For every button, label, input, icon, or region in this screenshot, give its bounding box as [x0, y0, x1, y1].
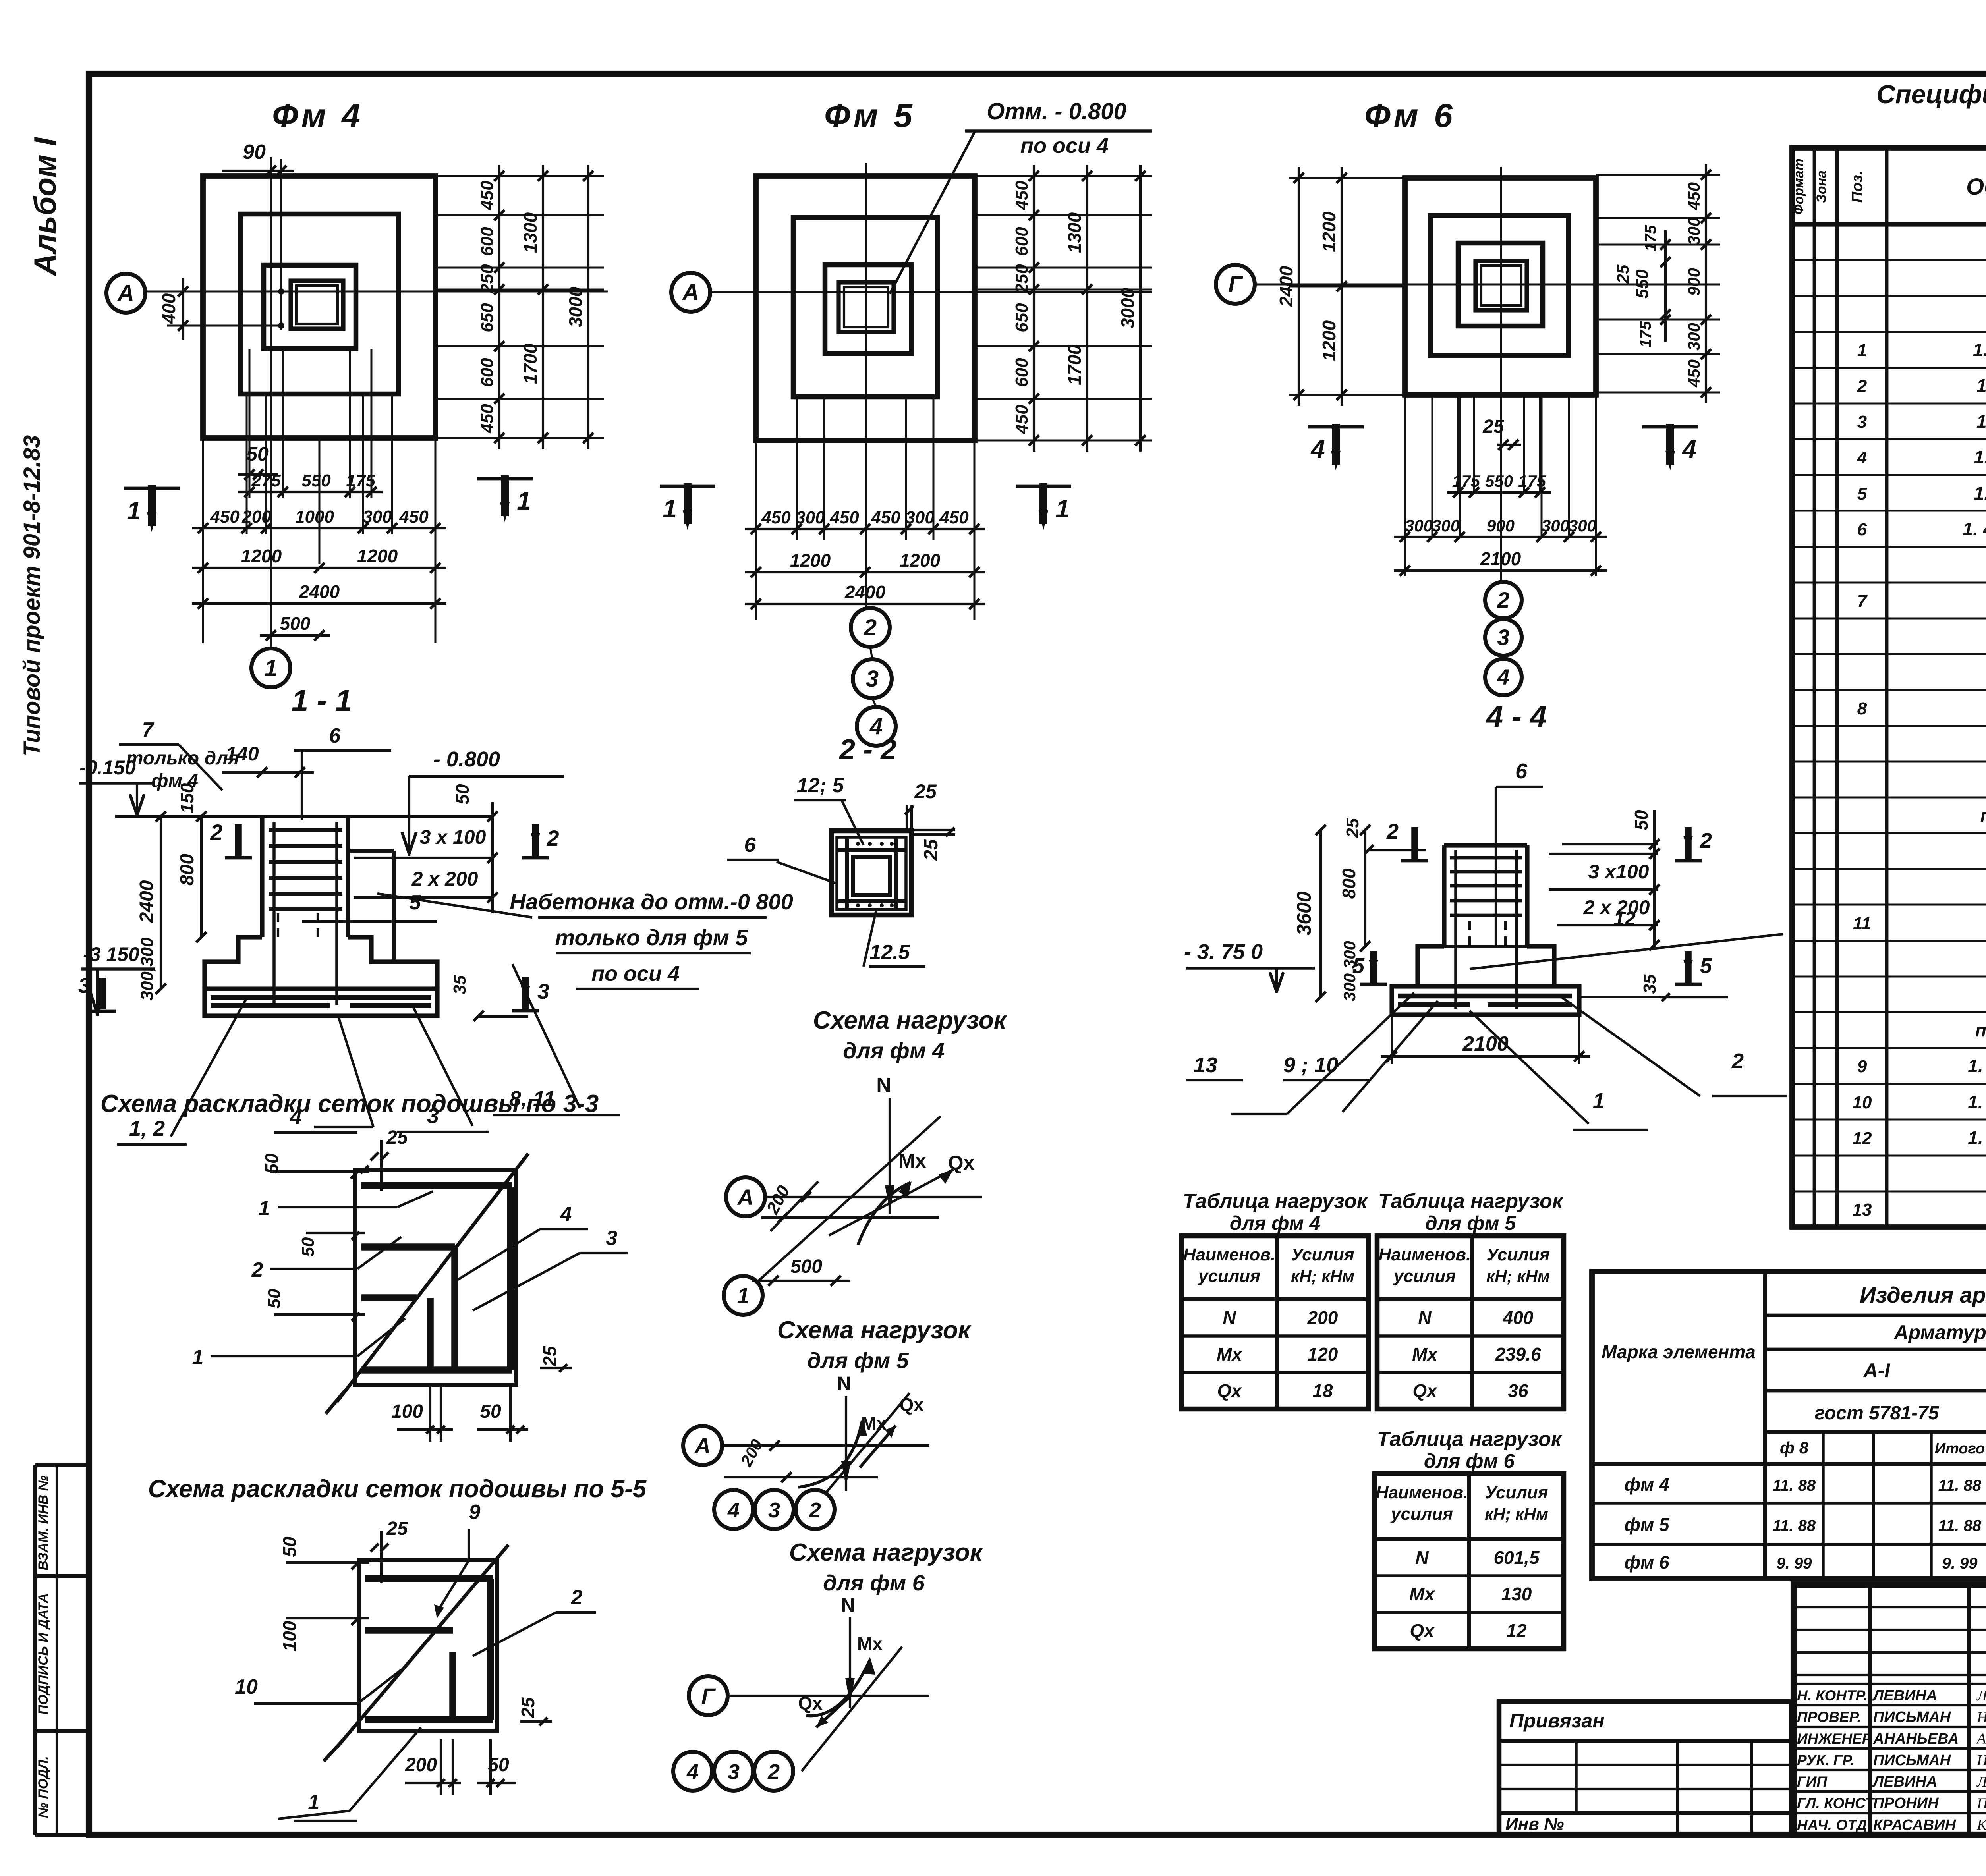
svg-text:N: N — [1418, 1307, 1432, 1328]
title block signature rows — [1794, 1683, 1986, 1685]
svg-text:175: 175 — [1518, 472, 1546, 490]
mesh vertical bar mid 3-3 — [427, 1298, 434, 1370]
section mark 3 right section 1-1 — [522, 977, 529, 1009]
svg-text:12.5: 12.5 — [869, 941, 910, 964]
svg-text:450: 450 — [871, 508, 900, 527]
svg-text:Схема раскладки сеток подошв: Схема раскладки сеток подошвы по 5-5 — [148, 1475, 647, 1503]
dim row 1200-1200 plan Фм5 — [745, 571, 985, 573]
axis A circle for plan Фм4 — [106, 274, 145, 313]
svg-text:50: 50 — [265, 1289, 284, 1308]
svg-text:550: 550 — [301, 471, 331, 490]
svg-text:по оси 4: по оси 4 — [591, 962, 680, 986]
svg-text:N: N — [841, 1595, 855, 1616]
svg-text:Арматура класса: Арматура класса — [1893, 1321, 1986, 1343]
mesh bar 3 horizontal 3-3 — [361, 1294, 417, 1301]
section 1-1 step profile left — [205, 937, 262, 989]
svg-text:-3 150: -3 150 — [83, 943, 139, 965]
section mark 1 right plan Фм5 — [1016, 485, 1071, 488]
svg-text:2400: 2400 — [844, 582, 886, 602]
svg-text:50: 50 — [480, 1401, 501, 1422]
svg-text:11. 88: 11. 88 — [1938, 1477, 1982, 1494]
svg-text:1300: 1300 — [520, 212, 541, 253]
svg-text:- 0.800: - 0.800 — [433, 747, 500, 771]
svg-text:4: 4 — [686, 1760, 699, 1784]
specification table column lines — [1813, 148, 1816, 1227]
svg-text:Усилия: Усилия — [1486, 1245, 1549, 1264]
svg-text:900: 900 — [1487, 516, 1515, 535]
svg-text:7: 7 — [142, 718, 155, 741]
svg-text:4: 4 — [1681, 435, 1696, 463]
svg-text:А: А — [117, 280, 134, 306]
specification table outer box — [1792, 148, 1986, 1227]
svg-text:300: 300 — [1405, 516, 1433, 535]
leader 4 right 3-3 — [453, 1229, 540, 1283]
svg-text:РУК. ГР.: РУК. ГР. — [1797, 1752, 1855, 1768]
leader 1 top 3-3 — [278, 1206, 397, 1208]
svg-text:300: 300 — [1685, 217, 1703, 245]
section 2-2 column core — [853, 857, 890, 895]
svg-text:450: 450 — [829, 508, 859, 527]
svg-text:1: 1 — [737, 1283, 749, 1308]
slab mesh lines section 4-4 — [1398, 994, 1572, 999]
leader 3 right 3-3 — [473, 1253, 580, 1310]
svg-text:ПИСЬМАН: ПИСЬМАН — [1873, 1752, 1951, 1769]
svg-text:2: 2 — [1386, 820, 1399, 843]
svg-text:450: 450 — [761, 508, 791, 527]
right dim 450-600-250-650-600-450 plan Фм4 — [498, 165, 500, 449]
dim row 450-200-1000-300-450 plan Фм4 — [192, 527, 446, 529]
svg-text:1200: 1200 — [790, 550, 831, 571]
svg-text:9. 99: 9. 99 — [1777, 1555, 1812, 1572]
load table для фм 5 grid — [1377, 1236, 1564, 1409]
svg-text:12: 12 — [1613, 907, 1636, 930]
svg-text:2: 2 — [546, 826, 559, 851]
svg-text:2: 2 — [571, 1586, 583, 1609]
mesh layout 5-5 outline — [359, 1560, 497, 1731]
load table для фм 6 grid — [1375, 1474, 1564, 1649]
svg-text:Таблица нагрузок: Таблица нагрузок — [1378, 1190, 1564, 1213]
svg-text:1300: 1300 — [1064, 212, 1085, 253]
svg-text:400: 400 — [1503, 1307, 1534, 1328]
mesh layout 3-3 outline — [355, 1170, 516, 1385]
section 2-2 horizontal rebar — [837, 848, 906, 852]
svg-text:Наименов.: Наименов. — [1183, 1245, 1275, 1264]
section mark 4 left plan Фм6 — [1308, 425, 1364, 429]
axis Г circle plan Фм6 — [1216, 265, 1255, 304]
svg-text:А-I: А-I — [1863, 1359, 1891, 1382]
svg-text:3 x 100: 3 x 100 — [420, 826, 486, 848]
left margin strip boxes — [33, 1465, 37, 1835]
svg-text:1. 410 - 2, Вып. 1: 1. 410 - 2, Вып. 1 — [1968, 1127, 1986, 1148]
svg-text:600: 600 — [1012, 227, 1032, 256]
leader 1 bottom 5-5 — [350, 1727, 421, 1811]
svg-text:2: 2 — [809, 1498, 821, 1522]
svg-text:9 ; 10: 9 ; 10 — [1283, 1053, 1338, 1077]
svg-text:25: 25 — [539, 1345, 560, 1367]
svg-text:1000: 1000 — [295, 507, 334, 527]
section 2-2 stirrup frame — [837, 837, 906, 909]
svg-text:А: А — [682, 280, 699, 305]
svg-text:1200: 1200 — [1319, 211, 1339, 252]
svg-text:500: 500 — [280, 613, 311, 634]
leader 10 5-5 — [254, 1702, 357, 1705]
svg-text:3: 3 — [1497, 625, 1509, 650]
svg-text:позиции 1, 2, 6: позиции 1, 2, 6 — [1975, 1020, 1986, 1040]
svg-text:Усилия: Усилия — [1291, 1245, 1354, 1264]
svg-text:7: 7 — [1857, 591, 1868, 611]
svg-text:4: 4 — [727, 1498, 740, 1522]
svg-text:Поз.: Поз. — [1849, 171, 1866, 203]
section 1-1 bottom leaders and labels — [171, 999, 246, 1137]
svg-text:Схема нагрузок: Схема нагрузок — [813, 1007, 1007, 1034]
right dim 1300-1700 plan Фм5 — [1086, 165, 1088, 452]
mesh bar 1 horizontal 3-3 — [361, 1182, 512, 1189]
section 4-4 bottom labels — [1287, 993, 1414, 1114]
svg-text:Привязан: Привязан — [1509, 1710, 1605, 1732]
diagonal 5-5 — [337, 1545, 508, 1747]
svg-text:450: 450 — [1685, 359, 1703, 388]
section mark 4 right plan Фм6 — [1642, 425, 1698, 429]
dim 3x100 section 1-1 — [354, 857, 493, 859]
section 2-2 vertical rebar — [845, 837, 849, 909]
reinforcement table data row lines — [1592, 1462, 1986, 1466]
svg-text:3: 3 — [78, 974, 90, 998]
svg-text:усилия: усилия — [1393, 1266, 1456, 1286]
svg-text:450: 450 — [939, 508, 969, 527]
svg-text:1. 410 - 2, Вып. 1: 1. 410 - 2, Вып. 1 — [1968, 1092, 1986, 1112]
svg-text:Фм 4: Фм 4 — [272, 97, 363, 134]
svg-text:2 - 2: 2 - 2 — [838, 734, 896, 766]
svg-text:300: 300 — [796, 508, 825, 527]
svg-text:500: 500 — [790, 1256, 822, 1277]
svg-text:550: 550 — [1485, 472, 1513, 490]
section mark 2 right section 1-1 — [532, 824, 539, 856]
svg-text:1200: 1200 — [900, 550, 941, 571]
svg-text:2: 2 — [1497, 587, 1509, 612]
load scheme фм5 Mx arc — [798, 1422, 862, 1487]
load scheme фм6 Qx arrow — [816, 1697, 850, 1727]
svg-text:Левина: Левина — [1976, 1687, 1986, 1704]
svg-text:1 - 1: 1 - 1 — [292, 684, 352, 718]
svg-text:1700: 1700 — [520, 343, 541, 384]
svg-text:фм 4: фм 4 — [1624, 1474, 1669, 1495]
svg-text:2100: 2100 — [1480, 548, 1521, 569]
svg-text:Схема раскладки сеток подош: Схема раскладки сеток подошвы по 3-3 — [100, 1090, 599, 1117]
svg-text:300: 300 — [1569, 516, 1596, 535]
dim row 275-550-175 plan Фм4 — [238, 491, 383, 493]
svg-text:Инв №: Инв № — [1505, 1814, 1564, 1834]
svg-text:усилия: усилия — [1390, 1504, 1453, 1524]
leader to Набетонка text — [377, 894, 532, 917]
svg-text:4: 4 — [1857, 448, 1867, 467]
label 2 leader section 4-4 — [1561, 997, 1700, 1096]
svg-text:Отм. - 0.800: Отм. - 0.800 — [987, 98, 1126, 124]
svg-text:4: 4 — [1310, 435, 1325, 463]
svg-text:1. 410-2 вып. 1: 1. 410-2 вып. 1 — [1976, 375, 1986, 396]
load scheme фм5 diagonal — [827, 1393, 910, 1492]
svg-text:фм 5: фм 5 — [1624, 1514, 1670, 1535]
svg-text:Марка элемента: Марка элемента — [1602, 1341, 1756, 1362]
svg-text:1200: 1200 — [1319, 320, 1339, 361]
svg-text:N: N — [1415, 1547, 1429, 1568]
plan Фм6 upper step outline — [1458, 243, 1543, 326]
right small dim 175-550-175 plan Фм6 — [1664, 230, 1667, 342]
axis 4 vertical line plan Фм5 — [865, 163, 867, 608]
svg-text:25: 25 — [386, 1127, 408, 1148]
right dim 450-300-900-300-450 plan Фм6 — [1705, 164, 1707, 403]
svg-text:только для фм 5: только для фм 5 — [555, 925, 748, 950]
svg-text:N: N — [837, 1373, 851, 1394]
set-on concrete block right section 1-1 — [348, 849, 394, 853]
load scheme фм5 axis A circle — [683, 1426, 722, 1465]
load scheme фм6 diagonal — [802, 1647, 902, 1771]
svg-text:3: 3 — [768, 1498, 780, 1522]
section 4-4 column rebar — [1450, 856, 1522, 860]
svg-text:1. 412-1/77 Вып. 3: 1. 412-1/77 Вып. 3 — [1963, 519, 1986, 539]
leader 9 5-5 — [437, 1561, 469, 1612]
svg-text:2: 2 — [864, 615, 877, 641]
svg-text:275: 275 — [251, 471, 281, 490]
svg-text:2: 2 — [1857, 376, 1867, 396]
base slab mesh lines — [211, 995, 431, 1000]
svg-text:2: 2 — [1700, 829, 1712, 853]
dim 400 plan Фм4 — [182, 278, 184, 340]
svg-text:3: 3 — [606, 1227, 618, 1250]
svg-text:Нис: Нис — [1976, 1752, 1986, 1769]
svg-text:Qx: Qx — [1412, 1380, 1438, 1401]
svg-text:А: А — [737, 1185, 753, 1210]
mesh bar top 5-5 — [365, 1575, 493, 1582]
svg-text:для фм 5: для фм 5 — [807, 1348, 909, 1373]
svg-text:175: 175 — [1452, 472, 1480, 490]
svg-text:2400: 2400 — [1276, 266, 1296, 307]
svg-text:5: 5 — [1352, 954, 1365, 978]
svg-text:Схема нагрузок: Схема нагрузок — [777, 1316, 972, 1344]
svg-text:Mx: Mx — [1412, 1344, 1438, 1365]
title block upper empty rows left part — [1794, 1606, 1986, 1608]
svg-text:3: 3 — [728, 1760, 740, 1784]
load scheme фм4 dim 200 diagonal — [771, 1181, 818, 1231]
axis Г line plan Фм6 — [1255, 284, 1720, 286]
svg-text:6: 6 — [329, 724, 341, 747]
svg-text:по оси 4: по оси 4 — [1020, 134, 1109, 158]
svg-text:9. 99: 9. 99 — [1942, 1555, 1978, 1572]
svg-text:25: 25 — [518, 1697, 538, 1718]
svg-text:кН; кНм: кН; кНм — [1291, 1267, 1354, 1285]
axis A line plan Фм5 — [710, 291, 1152, 293]
svg-text:Таблица нагрузок: Таблица нагрузок — [1377, 1428, 1563, 1451]
svg-text:кН; кНм: кН; кНм — [1485, 1505, 1548, 1523]
svg-text:1. 410-2, вып. 1: 1. 410-2, вып. 1 — [1974, 483, 1986, 504]
svg-text:800: 800 — [1339, 868, 1359, 899]
right dim 450-600-250-650-600-450 plan Фм5 — [1033, 165, 1035, 452]
dim row 300-300-900-300-300 plan Фм6 — [1394, 536, 1607, 538]
section 4-4 right extension lines — [1562, 843, 1658, 845]
svg-text:КРАСАВИН: КРАСАВИН — [1873, 1817, 1957, 1834]
svg-text:1: 1 — [1055, 494, 1070, 523]
svg-text:300: 300 — [905, 508, 935, 527]
mesh bottom bar 5-5 — [365, 1716, 493, 1723]
svg-text:13: 13 — [1194, 1053, 1217, 1077]
svg-text:№ ПОДЛ.: № ПОДЛ. — [36, 1756, 51, 1818]
svg-text:ЛЕВИНА: ЛЕВИНА — [1872, 1774, 1937, 1790]
section 4-4 column body — [1442, 845, 1446, 946]
axis A circle plan Фм5 — [671, 273, 710, 312]
Привязан block — [1499, 1702, 1791, 1835]
plan Фм6 column outline — [1476, 261, 1527, 310]
svg-text:Обозначение: Обозначение — [1966, 174, 1986, 200]
mesh vertical right 5-5 — [487, 1579, 494, 1720]
svg-text:кН; кНм: кН; кНм — [1486, 1267, 1550, 1285]
svg-text:300: 300 — [1432, 516, 1460, 535]
reinforcement table header structure — [1763, 1272, 1767, 1579]
svg-text:900: 900 — [1685, 268, 1703, 296]
svg-text:позиции 1 ÷ 6: позиции 1 ÷ 6 — [1980, 805, 1986, 826]
load scheme фм4 parallel line — [761, 1216, 939, 1219]
svg-text:175: 175 — [1642, 225, 1660, 251]
leader 2 mid 3-3 — [270, 1268, 357, 1270]
svg-text:450: 450 — [1012, 405, 1032, 434]
svg-text:Набетонка до отм.-0 800: Набетонка до отм.-0 800 — [510, 889, 793, 914]
svg-text:ПОДПИСЬ И ДАТА: ПОДПИСЬ И ДАТА — [36, 1593, 51, 1715]
svg-text:1. 410-2 вып. 1: 1. 410-2 вып. 1 — [1976, 411, 1986, 432]
plan Фм4 upper step outline — [264, 265, 356, 349]
svg-text:450: 450 — [477, 404, 497, 434]
svg-text:90: 90 — [243, 141, 266, 164]
svg-text:25: 25 — [1343, 818, 1362, 838]
load scheme фм5 parallel line — [724, 1476, 878, 1478]
svg-text:Qx: Qx — [1410, 1620, 1435, 1641]
load scheme фм4 Mx arc — [858, 1183, 910, 1245]
svg-text:1: 1 — [517, 486, 531, 515]
plan Фм5 outer footing outline — [756, 176, 975, 440]
svg-text:9: 9 — [1857, 1057, 1867, 1076]
svg-text:3: 3 — [866, 666, 879, 692]
diagonal line 3-3 — [337, 1154, 528, 1402]
svg-text:601,5: 601,5 — [1493, 1547, 1540, 1568]
title block outer box — [1794, 1585, 1986, 1835]
svg-text:НАЧ. ОТД: НАЧ. ОТД — [1797, 1817, 1867, 1833]
svg-text:Mx: Mx — [1217, 1344, 1243, 1365]
svg-text:Усилия: Усилия — [1485, 1483, 1548, 1502]
section 1-1 ground level line — [115, 815, 493, 818]
reinforcement table outer box — [1592, 1272, 1986, 1579]
svg-text:35: 35 — [450, 975, 469, 994]
specification table row lines — [1792, 259, 1986, 261]
section mark 1 left of plan Фм4 — [124, 487, 180, 490]
load scheme фм4 parallel diagonal Qx — [829, 1170, 953, 1235]
svg-text:ПРОНИН: ПРОНИН — [1873, 1795, 1939, 1812]
svg-text:8: 8 — [1857, 699, 1867, 718]
dim row 2400 plan Фм4 — [192, 602, 446, 605]
svg-text:фм 6: фм 6 — [1624, 1552, 1669, 1573]
svg-text:120: 120 — [1308, 1344, 1338, 1365]
svg-text:- 3. 75 0: - 3. 75 0 — [1184, 940, 1263, 964]
svg-text:Г: Г — [1228, 272, 1243, 297]
svg-text:Таблица нагрузок: Таблица нагрузок — [1183, 1190, 1368, 1213]
svg-text:гост 5781-75: гост 5781-75 — [1815, 1403, 1940, 1424]
plan Фм5 middle step outline — [793, 218, 937, 397]
section 2-2 rebar hooks — [856, 842, 860, 846]
svg-text:239.6: 239.6 — [1495, 1344, 1541, 1365]
anchor line +400 plan Фм4 — [167, 325, 281, 327]
svg-text:450: 450 — [477, 181, 497, 210]
svg-text:10: 10 — [1853, 1093, 1872, 1112]
svg-text:550: 550 — [1632, 269, 1652, 299]
svg-text:25: 25 — [914, 780, 937, 803]
svg-text:Альбом I: Альбом I — [27, 137, 62, 276]
svg-text:150: 150 — [177, 783, 197, 813]
svg-text:140: 140 — [226, 743, 259, 765]
svg-text:11. 88: 11. 88 — [1938, 1517, 1982, 1534]
svg-text:3600: 3600 — [1293, 891, 1315, 935]
svg-text:10: 10 — [235, 1675, 258, 1698]
svg-text:25: 25 — [921, 839, 942, 861]
column dashed lines below — [277, 913, 279, 941]
svg-text:300: 300 — [1542, 516, 1569, 535]
svg-text:для фм 4: для фм 4 — [843, 1038, 945, 1063]
right dim stack section 4-4 — [1653, 810, 1656, 947]
axis circle 1 plan Фм4 — [251, 648, 290, 687]
svg-text:ПРОВЕР.: ПРОВЕР. — [1797, 1709, 1861, 1725]
leader line Отм note — [890, 131, 975, 294]
svg-text:25: 25 — [386, 1518, 408, 1539]
svg-text:для фм 5: для фм 5 — [1425, 1212, 1516, 1234]
svg-text:1. 410-2, вып. 1: 1. 410-2, вып. 1 — [1974, 447, 1986, 467]
dim 800 rotated section 1-1 — [200, 816, 203, 937]
svg-text:усилия: усилия — [1198, 1266, 1260, 1286]
plan Фм5 right extension lines — [974, 175, 1152, 177]
plan Фм6 middle step outline — [1430, 216, 1569, 355]
svg-text:2400: 2400 — [299, 581, 340, 602]
svg-text:ИНЖЕНЕР: ИНЖЕНЕР — [1797, 1731, 1872, 1747]
svg-text:175: 175 — [1637, 321, 1654, 347]
svg-text:11. 88: 11. 88 — [1773, 1477, 1816, 1494]
svg-text:4: 4 — [1497, 664, 1509, 689]
svg-text:1: 1 — [192, 1346, 204, 1369]
label 1 leader section 4-4 — [1470, 1011, 1589, 1124]
svg-text:200: 200 — [1307, 1307, 1338, 1328]
plan Фм5 column outline — [838, 282, 894, 332]
svg-text:800: 800 — [177, 854, 198, 886]
svg-text:450: 450 — [1012, 181, 1032, 210]
mesh vertical bar right 3-3 — [507, 1187, 514, 1370]
svg-text:300: 300 — [1685, 323, 1703, 351]
svg-text:А: А — [694, 1433, 711, 1458]
svg-text:1200: 1200 — [357, 546, 398, 566]
svg-text:3000: 3000 — [565, 286, 586, 327]
svg-text:1: 1 — [308, 1791, 320, 1814]
svg-text:250: 250 — [1012, 264, 1032, 294]
svg-text:2 x 200: 2 x 200 — [411, 868, 478, 890]
dim 800 rotated section 4-4 — [1364, 830, 1366, 946]
svg-text:только для: только для — [126, 748, 240, 769]
svg-text:12; 5: 12; 5 — [797, 774, 844, 797]
svg-text:1, 2: 1, 2 — [129, 1117, 165, 1141]
svg-text:3 x100: 3 x100 — [1588, 861, 1649, 883]
svg-text:9: 9 — [469, 1501, 481, 1524]
svg-text:Г: Г — [701, 1683, 716, 1708]
svg-text:1: 1 — [663, 494, 677, 523]
left dim 1200-1200 plan Фм6 — [1341, 167, 1343, 406]
dim row 2100 plan Фм6 — [1394, 569, 1607, 572]
svg-text:5: 5 — [410, 891, 421, 914]
mesh vertical mid 5-5 — [449, 1652, 456, 1720]
svg-text:Qx: Qx — [1217, 1380, 1242, 1401]
svg-text:2: 2 — [1731, 1049, 1744, 1073]
svg-text:Изделия арматурные: Изделия арматурные — [1860, 1282, 1986, 1307]
svg-text:Mx: Mx — [861, 1413, 887, 1434]
